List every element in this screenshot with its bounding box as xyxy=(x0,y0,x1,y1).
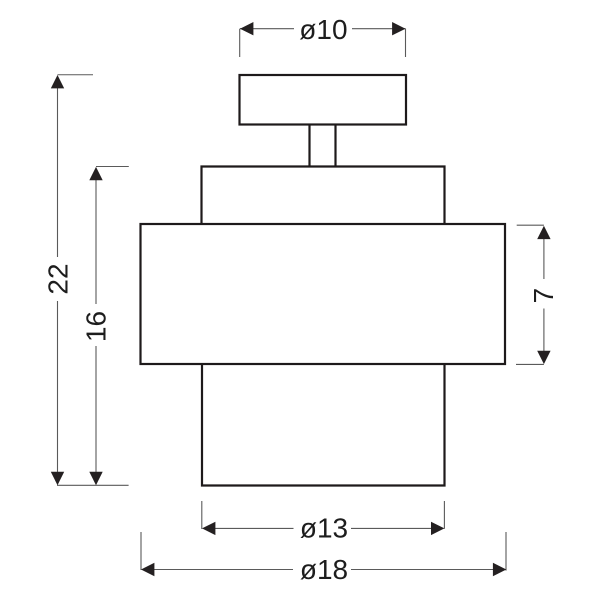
svg-text:ø18: ø18 xyxy=(300,554,348,585)
svg-text:ø10: ø10 xyxy=(299,14,347,45)
svg-text:16: 16 xyxy=(81,311,112,342)
svg-text:ø13: ø13 xyxy=(300,513,348,544)
svg-text:7: 7 xyxy=(528,288,559,304)
svg-text:22: 22 xyxy=(42,263,73,294)
